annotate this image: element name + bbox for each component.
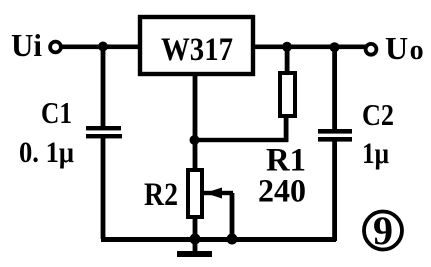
- node output junction R1: [282, 42, 292, 52]
- svg-text:Ui: Ui: [11, 27, 42, 63]
- wire C2 lower lead: [332, 141, 337, 241]
- label C1: [41, 95, 72, 130]
- svg-text:C2: C2: [362, 97, 394, 132]
- value 240: [258, 174, 306, 210]
- node output junction C2: [330, 42, 340, 52]
- svg-text:240: 240: [258, 174, 306, 210]
- wire C1 upper lead: [101, 47, 106, 126]
- label R1: [266, 143, 306, 179]
- svg-text:0. 1μ: 0. 1μ: [19, 136, 74, 169]
- terminal Uo: [366, 44, 377, 55]
- wire R2 lower lead: [193, 215, 198, 241]
- wire bottom: [101, 237, 336, 242]
- svg-text:R2: R2: [144, 177, 178, 213]
- wire R1 upper lead: [285, 47, 290, 74]
- resistor R1: [280, 73, 295, 116]
- ground: [177, 241, 212, 257]
- wire C1 lower lead: [101, 138, 106, 239]
- label W317: [161, 32, 233, 68]
- regulator U1 W317 box: [140, 17, 253, 74]
- node input junction: [98, 42, 108, 52]
- value 0.1µ: [19, 136, 74, 169]
- wire adj horizontal: [193, 138, 288, 142]
- svg-text:9: 9: [373, 208, 393, 253]
- wire C2 upper lead: [332, 47, 337, 129]
- svg-text:C1: C1: [41, 95, 72, 130]
- capacitor C2: [318, 129, 352, 142]
- svg-text:1μ: 1μ: [362, 137, 389, 170]
- label C2: [362, 97, 394, 132]
- wire R2 wiper arrow: [204, 188, 233, 199]
- terminal Ui: [50, 42, 61, 53]
- wire input: [62, 45, 140, 50]
- capacitor C1: [86, 126, 122, 138]
- svg-text:W317: W317: [161, 32, 233, 68]
- wire R1 lower lead: [284, 116, 289, 142]
- node ground junction: [190, 234, 201, 245]
- label R2: [144, 177, 178, 213]
- wire wiper down: [230, 193, 235, 240]
- node wiper junction: [227, 234, 238, 245]
- value 1µ: [362, 137, 389, 170]
- figure number 9: [364, 208, 402, 253]
- label Ui: [11, 27, 42, 63]
- wire regulator adj lead: [193, 74, 198, 170]
- node adj junction: [190, 135, 200, 145]
- label Uo: [385, 30, 424, 66]
- wire output: [253, 45, 366, 50]
- svg-text:Uo: Uo: [385, 30, 424, 66]
- potentiometer R2: [188, 170, 202, 217]
